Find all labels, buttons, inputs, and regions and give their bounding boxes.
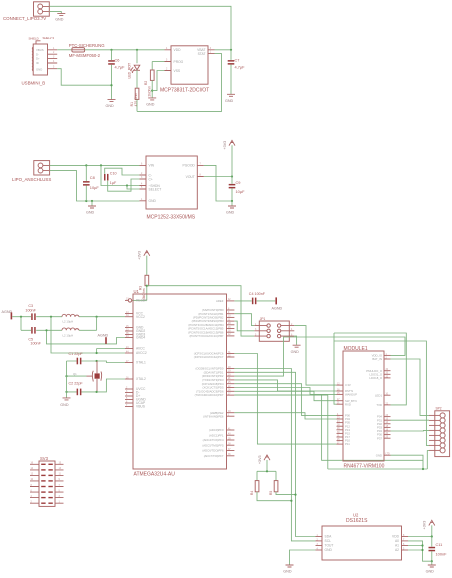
wire VBUS to fuse [57,49,72,51]
svg-text:3.3V: 3.3V [345,383,351,387]
svg-text:JP1: JP1 [260,317,266,321]
wire 5V rail fuse to VDD [85,49,165,51]
wire X1 pin2 to GND [49,12,61,14]
node junction C6 top [110,49,112,51]
svg-text:GND: GND [291,350,300,354]
supply +3V3 (pullups) [258,455,270,471]
svg-text:SHELL*4: SHELL*4 [43,36,55,40]
resistor R2 2kOhm [144,62,154,98]
node junction SELECT [126,184,128,186]
svg-text:Q1: Q1 [73,372,77,376]
wire PD3 to module RST_N [234,380,336,391]
supply +3V3 [223,140,235,176]
svg-text:R2: R2 [144,81,148,85]
wire A0/A1/A2 tie [408,541,432,561]
capacitor C3 100nF [25,304,36,320]
wire VCC2 riser [96,317,98,331]
wire PD6 to module SW_BTN [234,391,336,400]
capacitor C11 100nF [429,537,448,562]
svg-text:XTAL2: XTAL2 [136,377,146,381]
svg-text:C11: C11 [436,542,443,547]
ground AGND1 [2,310,13,320]
svg-text:AREF: AREF [216,299,224,303]
wire VOUT to 3V3 node [204,176,232,178]
wire JP1 VCC to module 3.3V [294,326,336,386]
svg-text:A2: A2 [395,548,399,552]
svg-text:D-: D- [36,52,39,56]
svg-text:C9: C9 [236,180,241,185]
svg-text:VOUT: VOUT [186,175,195,179]
ground under rail [86,201,96,215]
ground under C7 [225,94,235,103]
node junction SHDN branch [100,164,102,166]
wire PC6 to module P17 row [234,354,336,445]
wire PD4 to module P00 [234,384,336,416]
svg-text:LIPO_ANSCHLUSS: LIPO_ANSCHLUSS [12,177,51,182]
node junction pullups [266,470,268,472]
svg-text:ATMEGA32U4-AU: ATMEGA32U4-AU [134,471,176,477]
svg-text:ID: ID [36,61,39,65]
wire SHDN/SELECT branch [101,165,140,185]
svg-text:R4: R4 [250,491,254,495]
svg-text:GND: GND [106,104,115,108]
wire PE2 to module P04 [234,413,336,419]
ground under R2 [146,98,156,107]
svg-text:C1 22pF: C1 22pF [69,352,84,356]
svg-text:WAKEUP: WAKEUP [345,393,357,397]
svg-text:MF-MSMF050-2: MF-MSMF050-2 [69,53,101,58]
IC U3 MCP73831T-2DCI/OT [160,46,215,94]
svg-text:100nF: 100nF [25,308,36,312]
svg-text:VDD: VDD [392,535,400,539]
svg-text:+3V3: +3V3 [223,141,227,150]
svg-text:SP2: SP2 [436,407,442,411]
wire PD7 to bottom bus [234,395,423,460]
capacitor C5 100nF [28,327,41,346]
wire PD5 to module WAKEUP [234,388,336,395]
svg-text:LDO18_O: LDO18_O [369,376,382,380]
wire PROG to R2 [152,61,164,63]
svg-text:C8: C8 [90,175,95,180]
svg-text:GND: GND [226,211,235,215]
wire PB3 to JP1 [234,321,254,331]
node junction reset [146,285,148,287]
crystal Q1 [67,361,102,392]
wire VBAT to battery node [215,49,232,51]
svg-text:(T0/OC4D/ADC10)PD7: (T0/OC4D/ADC10)PD7 [195,393,224,397]
svg-text:GND: GND [225,99,234,103]
connector X2 LIPO_ANSCHLUSS [12,161,51,182]
svg-text:+3V3: +3V3 [138,251,142,260]
wire RXD drop [334,333,337,404]
svg-text:100nF: 100nF [436,551,448,556]
svg-text:LED1: LED1 [375,393,382,397]
svg-text:VCC2: VCC2 [136,315,145,319]
node junction A3 [96,316,98,318]
wire STAT loop [137,54,222,112]
wire BAT_IN to SP2 [391,359,430,415]
IC MODULE1 RN4677-V/RM100 [337,346,391,470]
connector JP1 [254,317,294,342]
svg-text:(ADC4/TCK)PF4: (ADC4/TCK)PF4 [203,438,224,442]
svg-text:PROG: PROG [174,60,184,64]
svg-text:VIN: VIN [149,164,155,168]
node junction R2/VSS [151,90,153,92]
wire U2 GND [290,550,316,565]
wire X2 pin2 to GND rail [50,171,140,201]
wire reset to JP1 [147,286,255,336]
svg-text:SCL: SCL [325,539,332,543]
LED1 LED_ROT [128,50,140,88]
IC U1 ATMEGA32U4-AU [125,289,234,478]
svg-text:10µF: 10µF [236,189,246,194]
capacitor C6 4.7uF [108,50,125,100]
wire SP2 riser [427,450,429,469]
wire top rail 341 [334,341,429,445]
resistor R1 470 Ohm [130,88,139,111]
wire JP1 pin6 to GND [294,336,296,345]
wire P31 to SP2 [391,419,430,421]
svg-text:P37: P37 [377,436,382,440]
svg-text:(ICP3/CLK0/OC4A)PC7: (ICP3/CLK0/OC4A)PC7 [194,355,224,359]
svg-text:VDD: VDD [174,48,182,52]
wire branch A-B [20,317,22,331]
svg-text:GND4: GND4 [136,336,145,340]
node junction A1 tie [421,544,423,546]
svg-text:(INT6/AIN0)PE6: (INT6/AIN0)PE6 [203,414,224,418]
capacitor C4 100nF [249,292,266,304]
wire analog VCC rail (wire A) [12,316,125,318]
wire battery+ net from X1 pin1 to VBAT node [49,6,231,50]
node junction AVCC [96,352,98,354]
svg-text:GND: GND [283,570,292,574]
svg-text:XTAL1: XTAL1 [136,361,146,365]
wire SCL long (PD1) [234,372,315,536]
svg-text:L2 10µH: L2 10µH [63,333,74,337]
svg-text:(ADC1)PF1: (ADC1)PF1 [209,433,224,437]
inductor L1 10uH [62,314,79,323]
svg-text:GND: GND [55,18,64,22]
node junction gnd bus [422,468,424,470]
svg-text:AVCC: AVCC [136,347,146,351]
capacitor C9 10uF [229,177,245,202]
node junction B1 [45,329,47,331]
node junction A2 tie [421,549,423,551]
svg-text:(PCINT7/OC0A/OC1C)PB7: (PCINT7/OC0A/OC1C)PB7 [189,334,223,338]
svg-text:MODULE1: MODULE1 [344,346,368,352]
node junction C11 bottom [431,560,433,562]
svg-text:A0: A0 [395,539,399,543]
node junction C2 left [65,391,67,393]
svg-text:+3V3: +3V3 [423,521,427,530]
node junction VOUT [231,175,233,177]
svg-text:470 Ohm: 470 Ohm [134,92,138,106]
svg-text:GND: GND [426,570,435,574]
svg-text:C10: C10 [110,171,117,175]
svg-text:R5: R5 [269,491,273,495]
resistor R4 [250,481,292,501]
node junction C8 top [85,164,87,166]
ground under C11 [426,561,436,574]
node junction A1 [20,316,22,318]
svg-text:CONNECT_LIPO3.7V: CONNECT_LIPO3.7V [3,16,46,21]
node junction XT-case [65,375,67,377]
node junction C8 bottom [85,200,87,202]
wire VDD to 3V3 [408,536,432,538]
wire PGOOD loop [204,165,232,201]
wire PD2 to VDD_IO [234,337,405,376]
svg-text:AGND: AGND [272,306,283,310]
node junction XT2 [96,391,98,393]
supply +3V3 (U2) [423,520,435,536]
svg-text:C6: C6 [115,58,120,63]
node junction LED top [136,49,138,51]
wire AGND line to GND4 [47,330,126,344]
supply +3V3 (reset) [138,251,150,276]
svg-text:VSS: VSS [174,69,181,73]
wire xtal gnd column [66,361,68,398]
node junction XT1 [96,360,98,362]
svg-text:TXD: TXD [376,403,382,407]
connector SV3 [30,456,64,507]
node junction VDD [431,535,433,537]
svg-text:LTD: LTD [386,454,391,456]
svg-text:(ADC0)PF0: (ADC0)PF0 [209,428,224,432]
svg-text:C7: C7 [235,57,240,62]
svg-text:A1: A1 [395,544,399,548]
svg-text:D+: D+ [36,57,40,61]
connector CN1 USBMINI_B [22,36,58,86]
capacitor C7 4.7uF [228,50,245,94]
node junction VBAT/C7 [230,49,232,51]
node junction A2 [50,316,52,318]
svg-text:U2: U2 [353,513,359,518]
wire AVCC line [51,317,125,353]
svg-text:GND: GND [376,453,382,457]
resistor R5 [269,481,296,495]
ground under JP1 [291,345,301,354]
svg-text:GND: GND [325,548,333,552]
capacitor C10 1uF [104,171,117,184]
wire USB GND rail [57,69,111,86]
svg-text:U1: U1 [134,289,140,294]
svg-text:PTC-SICHERUNG: PTC-SICHERUNG [69,43,105,48]
wire P34 to SP2 [391,429,430,432]
svg-text:LED_ROT: LED_ROT [128,63,132,79]
svg-text:100nF: 100nF [30,342,41,346]
svg-text:+3V3: +3V3 [258,455,262,464]
svg-text:GND: GND [86,211,95,215]
capacitor C8 10uF [83,165,99,201]
wire analog rail B [21,329,97,331]
svg-text:C2 22pF: C2 22pF [69,381,84,385]
wire C- to C10 [105,168,140,175]
svg-text:SV3: SV3 [40,456,49,461]
wire bottom bus 469 [328,395,428,469]
wire pullup tee [257,471,276,480]
svg-text:10µF: 10µF [90,185,100,190]
svg-text:SELECT: SELECT [149,187,162,191]
svg-text:1µF: 1µF [110,181,117,185]
connector SP2 [429,407,450,457]
svg-text:C+: C+ [149,177,153,181]
svg-text:SDA: SDA [325,535,333,539]
svg-text:AGND: AGND [98,333,109,337]
wire module GND down [391,455,424,469]
fuse F1 PTC MF-MSMF050-2 [69,43,105,58]
svg-text:(ADC7/TDI)PF7: (ADC7/TDI)PF7 [204,454,224,458]
svg-text:STAT: STAT [198,52,206,56]
svg-text:BAT_IN: BAT_IN [372,357,382,361]
wire AREF to C4 [234,300,251,302]
resistor R3 10kOhm [138,275,148,301]
ground under crystal caps [60,398,70,407]
connector X1 CONNECT_LIPO3.7V [3,2,49,21]
svg-text:GND: GND [60,403,69,407]
node junction C9 bottom [231,200,233,202]
svg-text:RESET: RESET [136,299,147,303]
wire C4 to AGND [257,300,276,302]
IC U4 MCP1252-33X50I/MS [140,156,204,220]
ground under C6 [106,100,116,109]
ground AGND3 [272,297,283,310]
svg-text:VBUS: VBUS [136,405,146,409]
svg-text:C4 100nF: C4 100nF [249,292,266,296]
svg-text:(ADC6/TDO)PF6: (ADC6/TDO)PF6 [202,449,224,453]
wire to SELECT pin [127,186,140,190]
svg-text:DS1621S: DS1621S [346,518,368,524]
svg-text:AVCC2: AVCC2 [136,351,147,355]
ground [55,14,65,22]
wire PB1 to JP1 [234,314,254,326]
wire VIN rail [50,164,140,166]
wire PD7 alt branch [234,394,327,396]
wire SDA long (PD0) [234,369,315,541]
ground under U2 [283,565,293,574]
svg-text:USBMINI_B: USBMINI_B [22,81,46,86]
svg-text:MCP1252-33X50I/MS: MCP1252-33X50I/MS [147,214,196,220]
svg-text:L2 10µH: L2 10µH [63,320,74,324]
node junction R4/SDA [290,500,292,502]
inductor L2 10uH [62,328,79,338]
svg-text:(ADC5/TMS)PF5: (ADC5/TMS)PF5 [202,443,224,447]
ground AGND2 [98,333,109,344]
svg-text:4,7µF: 4,7µF [235,64,246,69]
svg-text:GND: GND [36,67,42,71]
svg-text:2kOhm: 2kOhm [148,86,152,97]
wire C+ to C10 [108,179,140,191]
svg-text:GND: GND [146,103,155,107]
wire XTAL2 net [67,379,126,392]
svg-text:RXD: RXD [345,402,351,406]
svg-text:TOUT: TOUT [325,544,334,548]
node junction GND sym [91,200,93,202]
wire reset to RESET pin [132,299,147,301]
svg-text:MCP73831T-2DCI/OT: MCP73831T-2DCI/OT [160,88,209,94]
node junction GND rail / C6 [110,84,112,86]
capacitor C1 22pF [69,352,84,365]
IC U2 DS1621S [316,513,409,561]
svg-text:PGOOD: PGOOD [183,164,196,168]
svg-text:GND: GND [149,199,157,203]
wire VSS to R2 bottom [152,71,164,91]
wire TXD loop top [334,333,406,405]
svg-text:P11: P11 [345,442,350,446]
ground under C9 [226,201,236,215]
svg-text:VBUS: VBUS [36,48,44,52]
svg-text:SHIELD: SHIELD [29,37,39,41]
svg-text:4,7µF: 4,7µF [115,65,126,70]
node junction R5/SCL [294,494,296,496]
capacitor C2 22pF [69,381,84,395]
wire XTAL1 net [67,361,126,363]
